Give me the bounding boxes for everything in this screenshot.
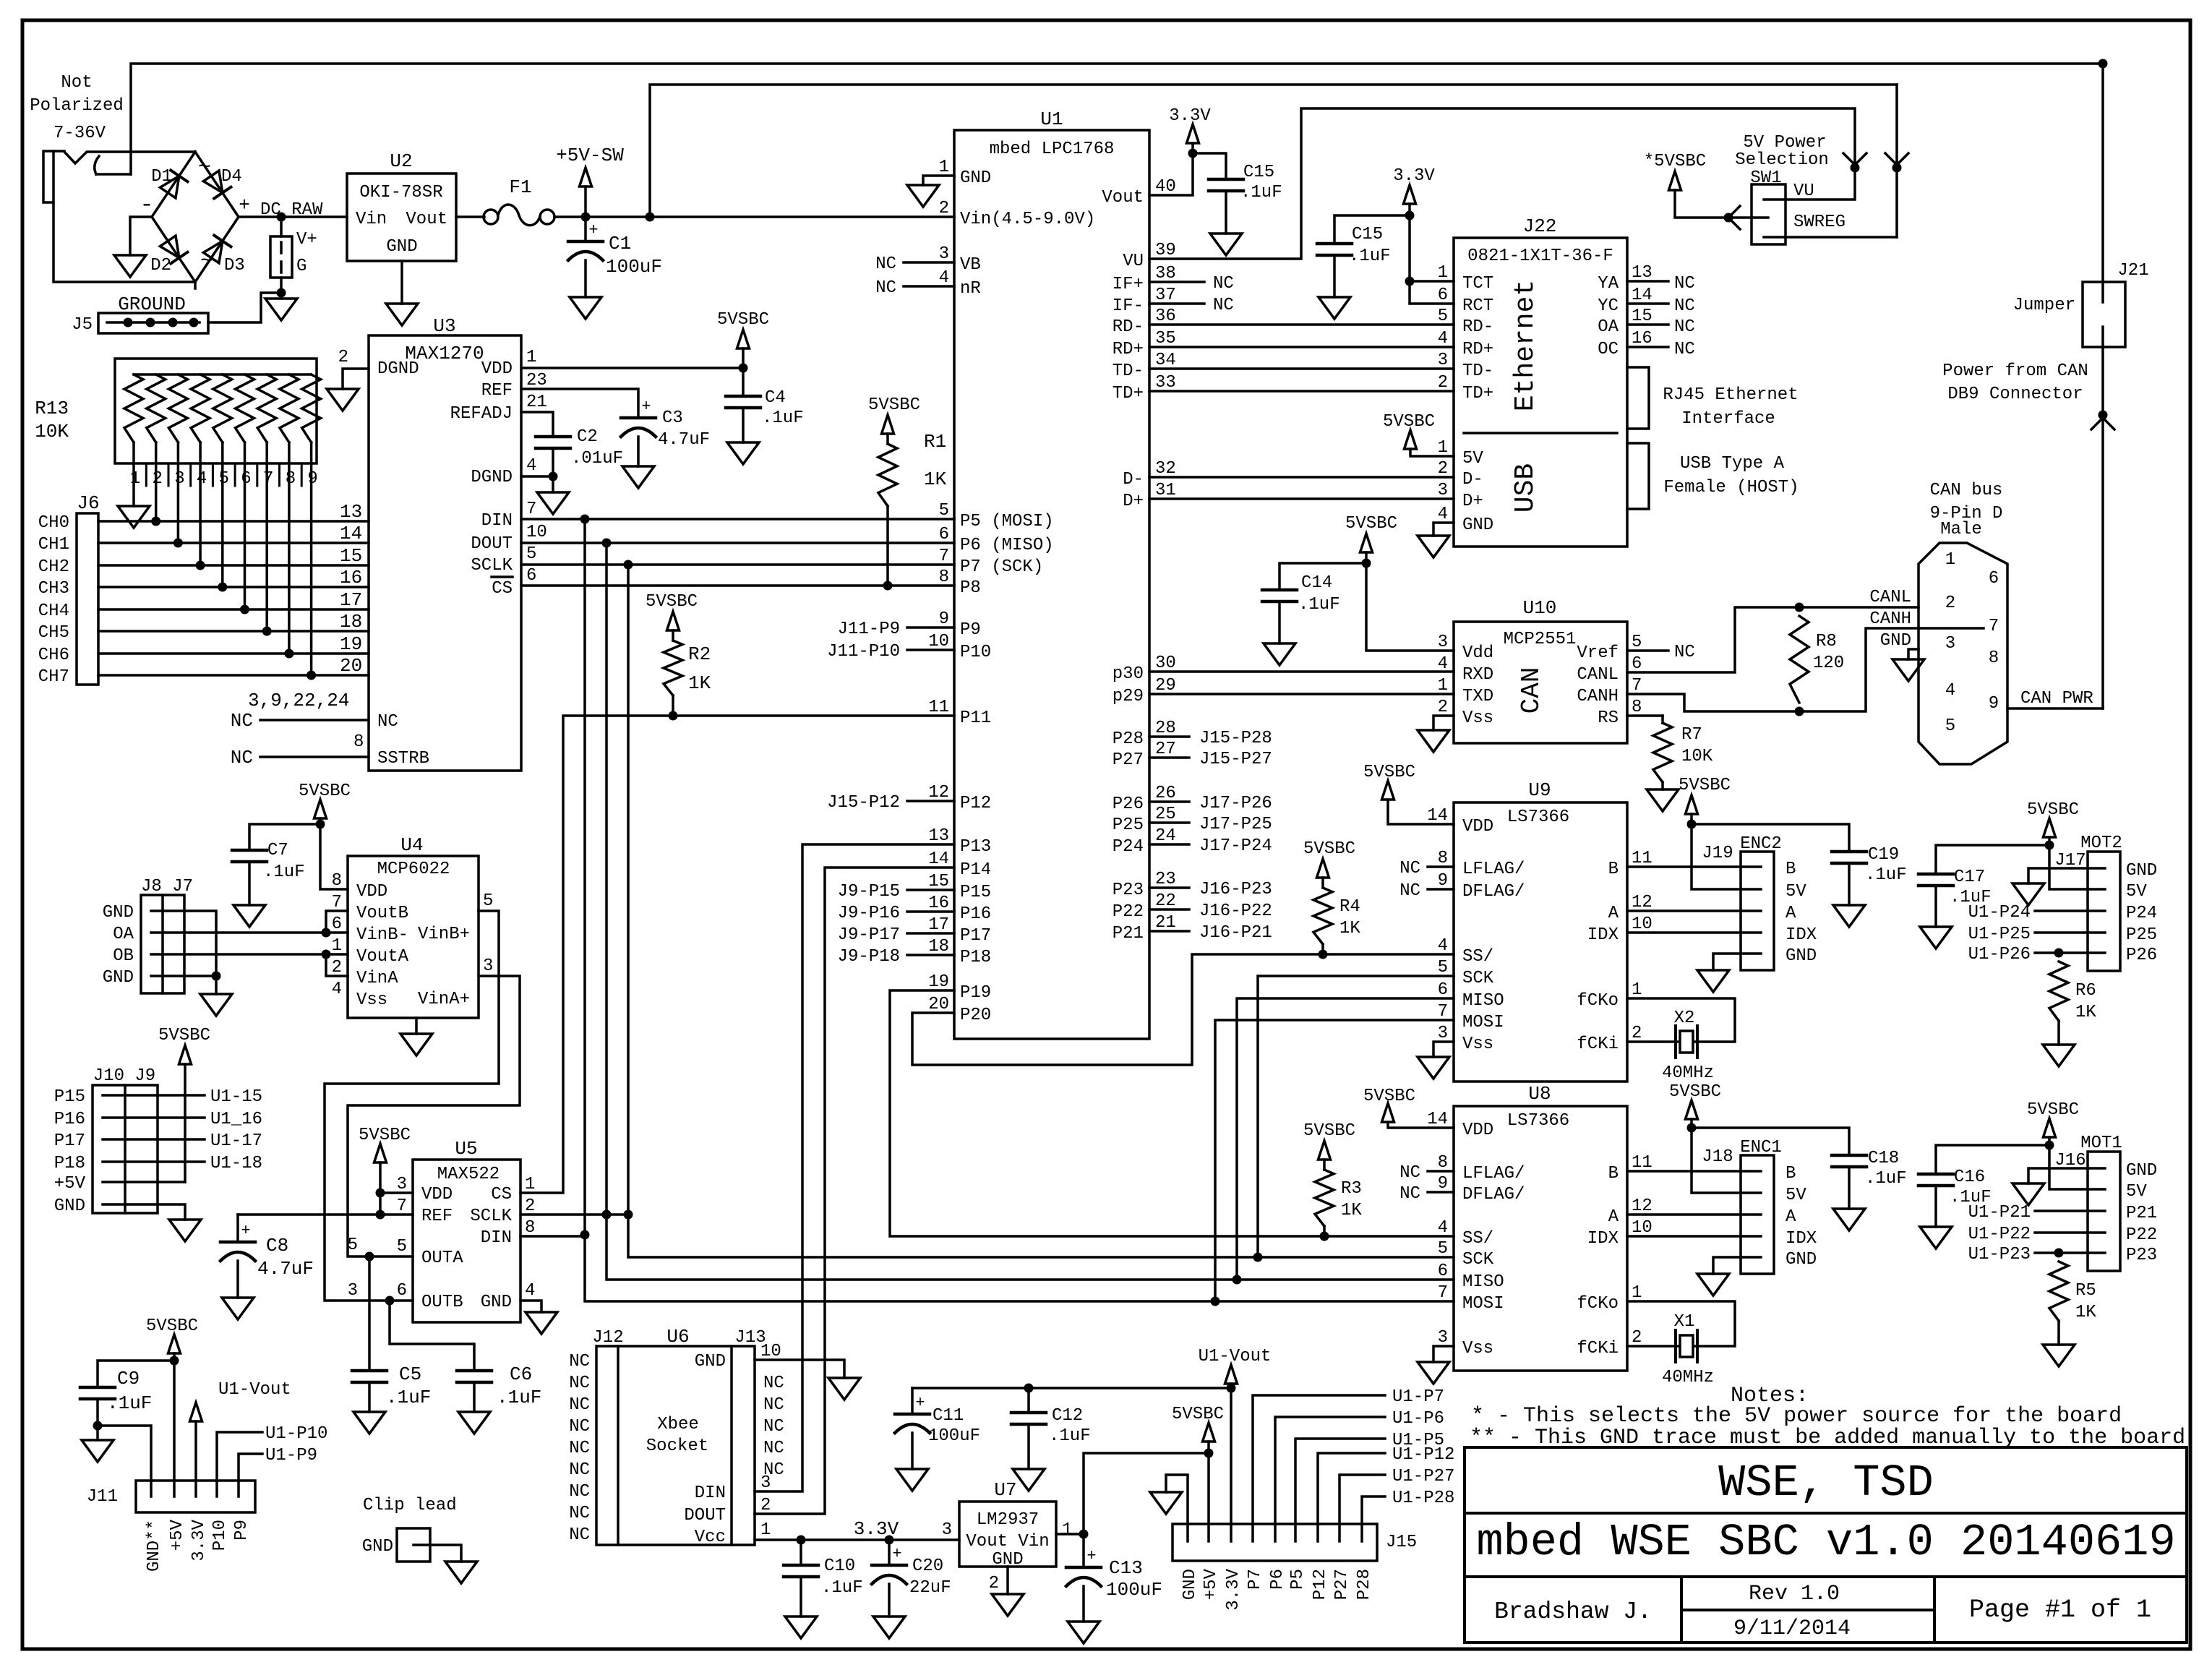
svg-text:GND: GND bbox=[362, 1537, 393, 1556]
svg-text:31: 31 bbox=[1155, 481, 1176, 500]
ground R6 bbox=[2043, 1045, 2075, 1066]
capacitor C13 100uF bbox=[1082, 1534, 1085, 1567]
svg-text:U8: U8 bbox=[1528, 1083, 1551, 1105]
svg-text:5VSBC: 5VSBC bbox=[146, 1316, 198, 1336]
svg-text:CH1: CH1 bbox=[38, 535, 69, 554]
wire CH5 bbox=[98, 630, 369, 633]
svg-text:J16-P21: J16-P21 bbox=[1199, 923, 1272, 943]
svg-text:40: 40 bbox=[1155, 177, 1176, 197]
svg-text:GND: GND bbox=[103, 968, 134, 988]
svg-text:SS/: SS/ bbox=[1462, 1229, 1493, 1249]
svg-text:P7: P7 bbox=[1246, 1569, 1265, 1590]
J22 divider bbox=[1464, 432, 1617, 434]
ground U6 bbox=[828, 1378, 860, 1400]
svg-text:YC: YC bbox=[1598, 296, 1619, 316]
wire CH2 bbox=[98, 564, 369, 567]
capacitor C11 100uF bbox=[911, 1388, 914, 1414]
svg-text:U1-P23: U1-P23 bbox=[1968, 1245, 2031, 1264]
svg-text:1: 1 bbox=[1945, 550, 1955, 570]
svg-text:DGND: DGND bbox=[377, 359, 419, 379]
svg-text:GND: GND bbox=[2126, 1161, 2157, 1181]
wire C13 node to J15 +5V bbox=[1084, 1453, 1209, 1534]
svg-text:16: 16 bbox=[340, 567, 362, 588]
capacitor C3 4.7uF bbox=[621, 416, 656, 420]
svg-text:40MHz: 40MHz bbox=[1662, 1368, 1714, 1387]
wire J5 to V+G node bbox=[208, 293, 281, 322]
svg-text:LFLAG/: LFLAG/ bbox=[1462, 860, 1525, 879]
svg-text:Vout Vin: Vout Vin bbox=[966, 1532, 1049, 1551]
ground C5 bbox=[353, 1412, 385, 1434]
svg-text:40MHz: 40MHz bbox=[1662, 1063, 1714, 1083]
svg-text:4.7uF: 4.7uF bbox=[658, 430, 710, 450]
svg-text:4: 4 bbox=[1438, 505, 1448, 524]
svg-text:TD-: TD- bbox=[1462, 361, 1493, 381]
svg-text:CH6: CH6 bbox=[38, 646, 69, 665]
ground C8 bbox=[222, 1298, 254, 1319]
svg-text:VoutA: VoutA bbox=[356, 947, 409, 967]
svg-text:8: 8 bbox=[525, 1218, 535, 1238]
wire CAN PWR bbox=[2007, 707, 2103, 710]
svg-text:VoutB: VoutB bbox=[356, 904, 408, 923]
svg-text:Vref: Vref bbox=[1577, 643, 1619, 663]
svg-text:P11: P11 bbox=[960, 708, 991, 728]
ground J17 GND bbox=[2012, 883, 2044, 905]
resistor R5 1K bbox=[2049, 1262, 2068, 1321]
svg-text:G: G bbox=[296, 257, 306, 276]
svg-text:5VSBC: 5VSBC bbox=[1383, 412, 1435, 432]
svg-text:Interface: Interface bbox=[1681, 409, 1775, 429]
svg-text:GND: GND bbox=[103, 903, 134, 922]
svg-text:P5 (MOSI): P5 (MOSI) bbox=[960, 512, 1054, 531]
svg-text:P22: P22 bbox=[2126, 1225, 2157, 1245]
svg-text:MOSI: MOSI bbox=[1462, 1013, 1504, 1032]
svg-text:NC: NC bbox=[569, 1504, 590, 1523]
svg-text:8: 8 bbox=[1438, 849, 1448, 868]
svg-text:0821-1X1T-36-F: 0821-1X1T-36-F bbox=[1467, 247, 1613, 266]
svg-text:7-36V: 7-36V bbox=[53, 124, 106, 143]
svg-text:J21: J21 bbox=[2117, 261, 2148, 281]
svg-text:J19: J19 bbox=[1702, 844, 1733, 863]
svg-text:C1: C1 bbox=[609, 233, 631, 254]
svg-text:REFADJ: REFADJ bbox=[450, 404, 513, 424]
svg-text:5: 5 bbox=[219, 469, 229, 489]
svg-text:GND: GND bbox=[2126, 861, 2157, 881]
svg-text:1K: 1K bbox=[924, 468, 947, 490]
svg-text:NC: NC bbox=[1399, 859, 1420, 878]
svg-text:Vout: Vout bbox=[406, 210, 447, 229]
svg-text:SCLK: SCLK bbox=[470, 1207, 512, 1226]
svg-text:VDD: VDD bbox=[481, 359, 513, 379]
svg-text:RJ45 Ethernet: RJ45 Ethernet bbox=[1663, 385, 1798, 405]
svg-text:5VSBC: 5VSBC bbox=[2027, 800, 2079, 820]
svg-text:6: 6 bbox=[397, 1281, 407, 1301]
svg-text:DOUT: DOUT bbox=[684, 1506, 726, 1525]
svg-text:C11: C11 bbox=[933, 1406, 964, 1426]
U9 LFLAG DFLAG NC bbox=[1428, 865, 1454, 868]
svg-text:CANL: CANL bbox=[1869, 588, 1911, 607]
svg-text:NC: NC bbox=[377, 712, 398, 732]
svg-text:NC: NC bbox=[875, 278, 896, 298]
svg-text:2: 2 bbox=[525, 1196, 535, 1216]
svg-text:CAN: CAN bbox=[1517, 667, 1546, 714]
svg-text:8: 8 bbox=[1632, 698, 1642, 717]
svg-text:10K: 10K bbox=[35, 421, 69, 442]
svg-text:1: 1 bbox=[760, 1520, 771, 1540]
wire CH6 bbox=[98, 652, 369, 655]
svg-text:P25: P25 bbox=[1113, 815, 1144, 835]
svg-text:J9-P17: J9-P17 bbox=[838, 925, 900, 945]
svg-text:P19: P19 bbox=[960, 983, 991, 1003]
wire U9 B to J19 bbox=[1627, 865, 1741, 868]
svg-text:P15: P15 bbox=[54, 1087, 85, 1107]
svg-text:1: 1 bbox=[1438, 438, 1448, 458]
wire 5VSBC to J17 5V bbox=[2049, 845, 2088, 889]
svg-text:VinA+: VinA+ bbox=[418, 990, 470, 1009]
svg-text:NC: NC bbox=[569, 1352, 590, 1371]
svg-text:+: + bbox=[239, 194, 250, 216]
wire J17 GND bbox=[2028, 868, 2088, 883]
svg-text:7: 7 bbox=[1438, 1002, 1448, 1022]
ground C14 bbox=[1264, 643, 1295, 665]
svg-text:17: 17 bbox=[340, 589, 362, 611]
wire 5VSBC to J16 5V bbox=[2049, 1145, 2088, 1189]
capacitor C10 .1uF bbox=[800, 1540, 802, 1565]
wire U2 GND bbox=[400, 261, 403, 304]
svg-text:3: 3 bbox=[348, 1281, 358, 1301]
svg-text:C2: C2 bbox=[577, 427, 598, 447]
capacitor C20 22uF bbox=[888, 1540, 891, 1565]
svg-text:J11: J11 bbox=[87, 1487, 118, 1507]
svg-text:J6: J6 bbox=[77, 492, 99, 514]
svg-text:U1-P7: U1-P7 bbox=[1392, 1387, 1444, 1407]
wire J15 P28 net bbox=[1362, 1496, 1385, 1524]
svg-text:3.3V: 3.3V bbox=[189, 1519, 209, 1561]
svg-text:U1-P26: U1-P26 bbox=[1968, 945, 2031, 964]
svg-text:P12: P12 bbox=[1311, 1569, 1330, 1600]
capacitor C2 .01uF bbox=[536, 435, 570, 439]
svg-text:5: 5 bbox=[1438, 307, 1448, 326]
diode D4 bbox=[203, 171, 231, 199]
svg-text:+: + bbox=[1086, 1547, 1096, 1565]
svg-text:TD+: TD+ bbox=[1462, 384, 1493, 403]
wire U1 Vout pin40 bbox=[1149, 153, 1193, 195]
svg-text:CAN bus: CAN bus bbox=[1930, 481, 2003, 500]
svg-text:VU: VU bbox=[1123, 252, 1144, 271]
resistor R7 10K on RS bbox=[1627, 714, 1663, 717]
svg-text:OKI-78SR: OKI-78SR bbox=[359, 183, 442, 202]
wire J21 to CAN PWR bbox=[2101, 347, 2104, 708]
arrow up on CAN PWR wire bbox=[2091, 418, 2114, 429]
wire U8 B to J18 bbox=[1627, 1170, 1741, 1173]
svg-text:OA: OA bbox=[113, 925, 134, 944]
svg-text:J9-P16: J9-P16 bbox=[838, 904, 900, 923]
wire J7 GND bottom bbox=[184, 975, 216, 977]
svg-text:GND**: GND** bbox=[145, 1520, 164, 1572]
svg-text:19: 19 bbox=[928, 972, 949, 992]
svg-text:.1uF: .1uF bbox=[1240, 183, 1282, 202]
svg-text:SCK: SCK bbox=[1462, 969, 1494, 988]
svg-text:U1-P22: U1-P22 bbox=[1968, 1225, 2031, 1244]
ground R13 bbox=[118, 506, 150, 528]
svg-text:8: 8 bbox=[332, 871, 342, 891]
wire 5VSBC to C19 bbox=[1692, 824, 1849, 852]
svg-text:9: 9 bbox=[307, 469, 317, 489]
svg-text:GND: GND bbox=[386, 237, 417, 257]
svg-text:RD+: RD+ bbox=[1113, 340, 1144, 359]
svg-text:33: 33 bbox=[1155, 373, 1176, 393]
ground U2 bbox=[386, 304, 418, 325]
svg-text:16: 16 bbox=[1632, 329, 1652, 348]
svg-text:29: 29 bbox=[1155, 676, 1176, 695]
wire U8 A to J18 bbox=[1627, 1213, 1741, 1216]
svg-text:3: 3 bbox=[760, 1473, 771, 1493]
svg-text:12: 12 bbox=[928, 783, 949, 802]
svg-text:12: 12 bbox=[1632, 893, 1652, 912]
svg-text:R7: R7 bbox=[1681, 725, 1702, 745]
svg-text:mbed LPC1768: mbed LPC1768 bbox=[990, 140, 1115, 159]
svg-text:34: 34 bbox=[1155, 351, 1176, 370]
title block frame bbox=[1465, 1447, 2187, 1643]
svg-text:9: 9 bbox=[1438, 871, 1448, 891]
svg-text:P18: P18 bbox=[960, 948, 991, 967]
svg-text:P7 (SCK): P7 (SCK) bbox=[960, 557, 1043, 577]
svg-text:.1uF: .1uF bbox=[1298, 595, 1340, 615]
U1 P28 P27 net labels bbox=[1149, 735, 1189, 738]
wire J15 P12 net bbox=[1318, 1453, 1385, 1524]
svg-text:U1-P9: U1-P9 bbox=[265, 1446, 317, 1465]
svg-text:P26: P26 bbox=[1113, 795, 1144, 814]
svg-text:Vss: Vss bbox=[1462, 708, 1493, 728]
wire 5VSBC to J19 5V bbox=[1692, 824, 1741, 889]
svg-text:U1-P10: U1-P10 bbox=[265, 1424, 327, 1444]
svg-text:4: 4 bbox=[1438, 1218, 1448, 1238]
svg-text:6: 6 bbox=[1438, 286, 1448, 305]
svg-text:C8: C8 bbox=[266, 1235, 288, 1256]
svg-text:fCKi: fCKi bbox=[1577, 1339, 1619, 1358]
svg-text:NC: NC bbox=[569, 1482, 590, 1502]
wires p30 p29 to U10 bbox=[1149, 670, 1454, 673]
svg-text:P28: P28 bbox=[1113, 729, 1144, 749]
svg-text:13: 13 bbox=[1632, 263, 1652, 283]
svg-text:MISO: MISO bbox=[1462, 1272, 1504, 1292]
svg-text:D-: D- bbox=[1462, 470, 1483, 489]
svg-text:P12: P12 bbox=[960, 794, 991, 813]
svg-text:DIN: DIN bbox=[481, 511, 513, 531]
svg-text:7: 7 bbox=[1438, 1283, 1448, 1303]
svg-text:NC: NC bbox=[1674, 643, 1695, 662]
arrow on VU wire bbox=[1843, 153, 1866, 165]
svg-text:GND: GND bbox=[1786, 1250, 1817, 1269]
svg-text:9: 9 bbox=[939, 609, 949, 629]
svg-text:3: 3 bbox=[939, 244, 949, 264]
svg-text:C18: C18 bbox=[1868, 1149, 1899, 1168]
svg-text:SCLK: SCLK bbox=[471, 556, 513, 575]
svg-text:NC: NC bbox=[1674, 340, 1695, 359]
wire rail to J15 3.3V pin bbox=[1230, 1388, 1233, 1524]
svg-text:TD-: TD- bbox=[1113, 361, 1144, 381]
U8 LFLAG DFLAG NC bbox=[1428, 1170, 1454, 1173]
U1 P26 P25 P24 net labels bbox=[1149, 800, 1189, 803]
svg-text:D4: D4 bbox=[221, 167, 242, 187]
svg-text:CANH: CANH bbox=[1869, 609, 1911, 629]
svg-text:~: ~ bbox=[198, 155, 211, 180]
svg-text:.1uF: .1uF bbox=[1049, 1426, 1091, 1446]
wire 3.3V rail bbox=[755, 1538, 959, 1541]
USB tab bbox=[1627, 443, 1649, 509]
svg-text:5VSBC: 5VSBC bbox=[158, 1026, 210, 1045]
wire U7 Vin to C13 node bbox=[1056, 1533, 1084, 1536]
svg-text:C7: C7 bbox=[267, 841, 288, 860]
svg-text:REF: REF bbox=[421, 1207, 453, 1226]
svg-text:RD+: RD+ bbox=[1462, 340, 1493, 359]
svg-text:P10: P10 bbox=[210, 1520, 230, 1551]
svg-text:P21: P21 bbox=[1113, 924, 1144, 943]
svg-text:8: 8 bbox=[286, 469, 296, 489]
svg-text:10: 10 bbox=[928, 632, 949, 651]
U1 NC pins 3 4 bbox=[904, 261, 954, 264]
svg-text:4.7uF: 4.7uF bbox=[257, 1258, 314, 1280]
svg-text:14: 14 bbox=[1632, 286, 1652, 305]
svg-text:P25: P25 bbox=[2126, 925, 2157, 945]
svg-text:18: 18 bbox=[928, 937, 949, 956]
capacitor C8 4.7uF bbox=[236, 1215, 239, 1242]
svg-text:11: 11 bbox=[928, 698, 949, 717]
svg-text:18: 18 bbox=[340, 611, 362, 633]
svg-text:5V: 5V bbox=[1786, 882, 1806, 902]
svg-text:3.3V: 3.3V bbox=[1224, 1568, 1243, 1610]
ground clip lead bbox=[445, 1562, 477, 1583]
wire J15 P7 net bbox=[1253, 1395, 1385, 1524]
svg-text:5: 5 bbox=[1632, 633, 1642, 652]
U1 P19 wire to U8 SS bbox=[890, 990, 1454, 1236]
wire OA to U4 VinB- bbox=[151, 931, 326, 934]
svg-text:5VSBC: 5VSBC bbox=[868, 395, 920, 415]
svg-text:NC: NC bbox=[1213, 274, 1234, 294]
svg-text:36: 36 bbox=[1155, 307, 1176, 326]
ground U5 GND bbox=[526, 1312, 557, 1334]
svg-text:CH5: CH5 bbox=[38, 623, 69, 643]
svg-text:15: 15 bbox=[1632, 307, 1652, 326]
wire U9 MISO from bus bbox=[1237, 998, 1454, 1280]
ground U7 bbox=[992, 1594, 1024, 1616]
svg-text:.1uF: .1uF bbox=[263, 862, 305, 882]
svg-text:GND: GND bbox=[1880, 631, 1911, 651]
svg-text:VinA: VinA bbox=[356, 969, 398, 988]
svg-text:nR: nR bbox=[960, 279, 981, 299]
svg-text:J15-P12: J15-P12 bbox=[827, 793, 900, 813]
svg-text:U7: U7 bbox=[994, 1479, 1016, 1501]
svg-text:1K: 1K bbox=[1339, 919, 1360, 938]
ground U10 Vss bbox=[1418, 730, 1449, 752]
wire MOSI vertical bbox=[585, 519, 1454, 1301]
svg-text:NC: NC bbox=[569, 1374, 590, 1393]
svg-text:SSTRB: SSTRB bbox=[377, 749, 429, 768]
resistor R6 1K bbox=[2049, 962, 2068, 1021]
svg-text:VinB+: VinB+ bbox=[418, 925, 470, 944]
wire 5VSBC to U4 VDD bbox=[320, 824, 348, 889]
svg-text:R3: R3 bbox=[1341, 1179, 1362, 1199]
svg-text:P16: P16 bbox=[960, 904, 991, 924]
capacitor C19 .1uF bbox=[1832, 850, 1866, 854]
svg-text:27: 27 bbox=[1155, 740, 1176, 759]
U1 pin1 GND wire bbox=[923, 176, 954, 185]
svg-text:B: B bbox=[1608, 860, 1619, 879]
svg-text:DOUT: DOUT bbox=[471, 534, 513, 554]
ground U9 Vss bbox=[1418, 1057, 1449, 1079]
svg-text:2: 2 bbox=[1945, 594, 1955, 613]
svg-text:+5V: +5V bbox=[168, 1519, 187, 1551]
wires D- D+ to J22 USB bbox=[1149, 476, 1454, 479]
wire U9 IDX to J19 bbox=[1627, 931, 1741, 934]
svg-text:Jumper: Jumper bbox=[2013, 296, 2075, 315]
svg-text:Vss: Vss bbox=[1462, 1339, 1493, 1358]
svg-text:120: 120 bbox=[1813, 654, 1844, 673]
svg-text:VU: VU bbox=[1793, 181, 1814, 201]
ground C11 bbox=[896, 1469, 928, 1491]
svg-text:6: 6 bbox=[939, 525, 949, 544]
svg-text:+5V: +5V bbox=[1201, 1568, 1221, 1600]
svg-text:37: 37 bbox=[1155, 286, 1176, 305]
svg-text:9/11/2014: 9/11/2014 bbox=[1733, 1617, 1851, 1641]
svg-text:OA: OA bbox=[1598, 317, 1619, 337]
svg-text:GND: GND bbox=[695, 1352, 726, 1371]
ground R5 bbox=[2043, 1345, 2075, 1366]
connector DB9 CAN male bbox=[1919, 543, 2007, 764]
svg-text:U1-P27: U1-P27 bbox=[1392, 1467, 1454, 1486]
svg-text:U1-P6: U1-P6 bbox=[1392, 1409, 1444, 1429]
svg-text:P13: P13 bbox=[960, 837, 991, 857]
svg-text:J10 J9: J10 J9 bbox=[93, 1066, 155, 1086]
svg-text:3: 3 bbox=[1438, 481, 1448, 500]
svg-text:IDX: IDX bbox=[1587, 1229, 1619, 1249]
svg-text:IDX: IDX bbox=[1587, 925, 1619, 945]
svg-text:1: 1 bbox=[1632, 1283, 1642, 1303]
wire SCK vertical bbox=[628, 565, 1454, 1257]
svg-text:30: 30 bbox=[1155, 654, 1176, 673]
ground V+G bbox=[265, 299, 297, 320]
svg-text:5: 5 bbox=[939, 501, 949, 521]
svg-text:100uF: 100uF bbox=[606, 256, 662, 278]
svg-text:MOT1: MOT1 bbox=[2080, 1134, 2122, 1153]
wire CANL to DB9 pin2 bbox=[1627, 607, 1919, 672]
wire U5 GND bbox=[520, 1301, 541, 1312]
svg-text:2: 2 bbox=[1438, 459, 1448, 479]
svg-text:5VSBC: 5VSBC bbox=[299, 782, 351, 801]
svg-text:Not: Not bbox=[61, 73, 92, 93]
svg-text:C5: C5 bbox=[399, 1363, 421, 1385]
ground J22 bbox=[1418, 536, 1449, 557]
wire J18 GND bbox=[1713, 1257, 1741, 1274]
svg-text:2: 2 bbox=[332, 958, 342, 977]
connector J15 bbox=[1173, 1524, 1377, 1561]
wire R13 pin1 to ground bbox=[132, 463, 135, 506]
svg-text:J17-P24: J17-P24 bbox=[1199, 836, 1272, 856]
ground U1 GND bbox=[907, 185, 939, 207]
svg-text:MOSI: MOSI bbox=[1462, 1294, 1504, 1314]
svg-text:J15-P28: J15-P28 bbox=[1199, 729, 1272, 748]
svg-text:P24: P24 bbox=[1113, 837, 1144, 857]
svg-text:P17: P17 bbox=[54, 1131, 85, 1151]
svg-text:NC: NC bbox=[231, 710, 253, 732]
svg-text:6: 6 bbox=[241, 469, 251, 489]
svg-text:C10: C10 bbox=[824, 1556, 855, 1576]
svg-text:U2: U2 bbox=[390, 150, 412, 172]
svg-text:3: 3 bbox=[397, 1175, 407, 1194]
svg-text:28: 28 bbox=[1155, 719, 1176, 738]
wire J15 GND to ground bbox=[1166, 1475, 1188, 1524]
svg-text:CAN PWR: CAN PWR bbox=[2020, 689, 2093, 708]
svg-text:14: 14 bbox=[1427, 806, 1448, 826]
